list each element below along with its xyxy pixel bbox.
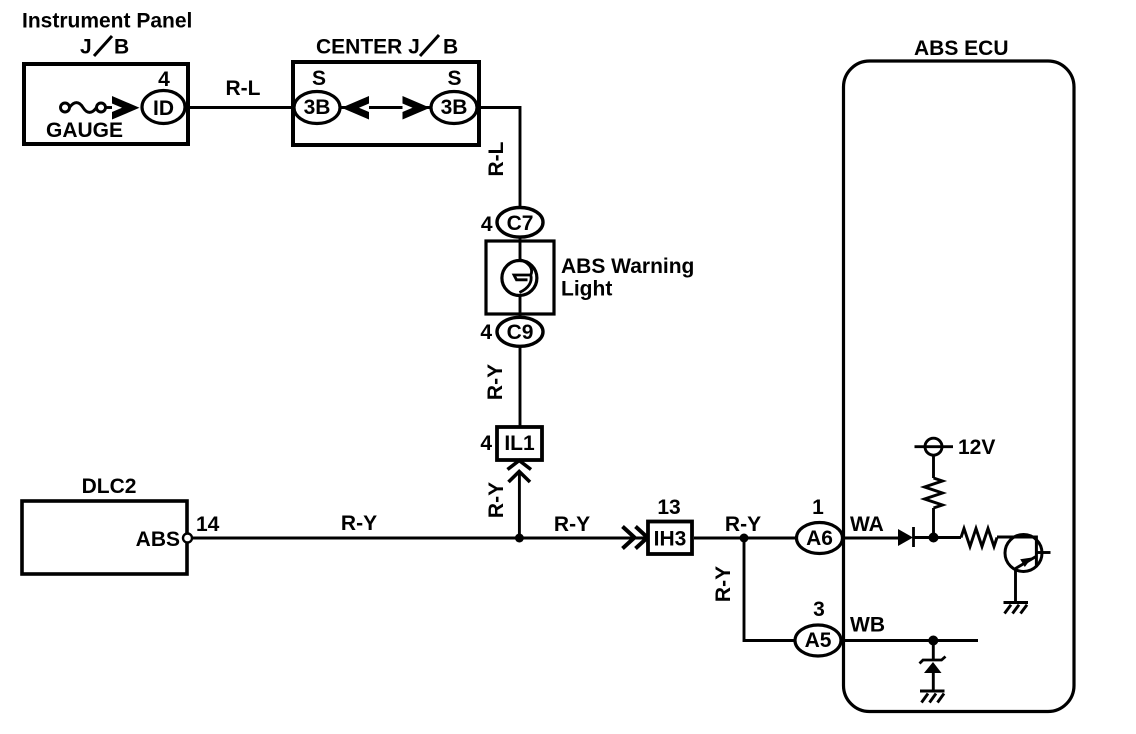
transistor Q1 bbox=[1005, 535, 1051, 572]
connector A5 bbox=[795, 625, 841, 656]
wire R-L (ID to CENTER J/B) bbox=[185, 106, 294, 109]
wire arrow to junction bbox=[518, 473, 521, 538]
box ABS Warning Light bbox=[486, 241, 554, 314]
junction dot WB node bbox=[928, 636, 938, 646]
svg-text:J: J bbox=[80, 36, 92, 59]
resistor R1 (vertical) bbox=[925, 478, 943, 508]
connector IL1 bbox=[497, 427, 542, 460]
svg-text:R-Y: R-Y bbox=[484, 364, 507, 400]
wire resistor to transistor bbox=[997, 536, 1036, 539]
svg-text:S: S bbox=[312, 67, 326, 90]
svg-text:4: 4 bbox=[481, 213, 493, 236]
wire resistor to node bbox=[932, 508, 935, 538]
svg-text:ABS: ABS bbox=[136, 528, 180, 551]
label CENTER J/B bbox=[316, 35, 458, 59]
svg-text:Instrument Panel: Instrument Panel bbox=[22, 10, 192, 33]
box ABS ECU bbox=[844, 61, 1075, 712]
arrow left toward 3B bbox=[342, 96, 370, 120]
svg-text:GAUGE: GAUGE bbox=[46, 119, 123, 142]
svg-text:IH3: IH3 bbox=[654, 528, 687, 551]
svg-text:12V: 12V bbox=[958, 436, 995, 459]
svg-text:WB: WB bbox=[850, 614, 885, 637]
wire branch down to A5 bbox=[744, 538, 796, 641]
svg-text:3: 3 bbox=[813, 598, 825, 621]
wire A5 into ECU (WB) bbox=[841, 639, 978, 642]
svg-text:ABS Warning: ABS Warning bbox=[561, 255, 694, 278]
svg-text:4: 4 bbox=[480, 432, 492, 455]
svg-text:B: B bbox=[114, 36, 129, 59]
wire C7 to light box bbox=[519, 237, 522, 262]
svg-text:R-Y: R-Y bbox=[485, 482, 508, 518]
wire between 3B connectors bbox=[340, 106, 431, 109]
wire 12V to resistor bbox=[932, 455, 935, 478]
connector 3B (left) bbox=[294, 92, 340, 124]
terminal circle DLC2 bbox=[183, 534, 192, 543]
box DLC2 bbox=[22, 501, 187, 574]
arrow double-chevron into IH3 bbox=[623, 527, 648, 549]
svg-text:1: 1 bbox=[812, 496, 824, 519]
wire light box to C9 bbox=[519, 294, 522, 319]
label Instrument Panel J/B bbox=[22, 10, 192, 59]
wire DLC2 to junction bbox=[192, 537, 519, 540]
svg-text:R-L: R-L bbox=[226, 77, 261, 100]
svg-text:13: 13 bbox=[657, 496, 680, 519]
zener diode ZD1 bbox=[920, 641, 946, 692]
arrow right toward 3B bbox=[403, 96, 431, 120]
bulb ABS Warning Light bbox=[502, 260, 537, 296]
svg-text:B: B bbox=[443, 36, 458, 59]
svg-text:ID: ID bbox=[153, 97, 174, 120]
svg-text:R-Y: R-Y bbox=[554, 513, 590, 536]
svg-text:WA: WA bbox=[850, 513, 884, 536]
power 12V bbox=[915, 438, 954, 455]
wire C9 to IL1 bbox=[519, 347, 522, 429]
svg-text:A6: A6 bbox=[806, 527, 833, 550]
svg-text:R-L: R-L bbox=[485, 141, 508, 176]
resistor R2 (horizontal) bbox=[961, 529, 997, 547]
label ABS Warning Light bbox=[561, 255, 694, 301]
box Instrument Panel J/B bbox=[24, 64, 188, 144]
svg-text:R-Y: R-Y bbox=[712, 566, 735, 602]
svg-text:4: 4 bbox=[480, 321, 492, 344]
wire from 3B right to corner bbox=[477, 108, 520, 208]
svg-text:ABS ECU: ABS ECU bbox=[914, 37, 1009, 60]
connector IH3 bbox=[648, 522, 692, 555]
connector A6 bbox=[797, 523, 843, 554]
fuse GAUGE bbox=[61, 103, 116, 113]
ground (transistor emitter) bbox=[1004, 603, 1029, 614]
connector C9 bbox=[497, 317, 543, 346]
connector ID bbox=[142, 91, 185, 124]
svg-text:IL1: IL1 bbox=[504, 432, 535, 455]
svg-text:DLC2: DLC2 bbox=[82, 475, 137, 498]
wire junction to IH3 bbox=[519, 537, 648, 540]
svg-text:3B: 3B bbox=[304, 96, 331, 119]
svg-text:4: 4 bbox=[158, 68, 170, 91]
svg-text:CENTER J: CENTER J bbox=[316, 36, 420, 59]
wire emitter down bbox=[1014, 569, 1017, 602]
ground (zener) bbox=[920, 691, 945, 703]
wire A6 into ECU bbox=[843, 537, 899, 540]
diode D1 bbox=[898, 527, 914, 547]
junction dot WA node bbox=[929, 533, 939, 543]
svg-text:3B: 3B bbox=[441, 96, 468, 119]
wire IH3 to A6 bbox=[694, 537, 797, 540]
svg-text:R-Y: R-Y bbox=[725, 513, 761, 536]
arrow into ID bbox=[112, 96, 140, 120]
svg-text:R-Y: R-Y bbox=[341, 512, 377, 535]
connector 3B (right) bbox=[431, 92, 477, 124]
junction dot bbox=[515, 534, 524, 543]
wire diode to node bbox=[914, 536, 962, 539]
arrow up below IL1 bbox=[508, 461, 532, 483]
connector C7 bbox=[497, 208, 543, 238]
svg-text:Light: Light bbox=[561, 278, 612, 301]
box CENTER J/B bbox=[293, 62, 479, 145]
junction dot (branch to A5) bbox=[740, 534, 749, 543]
svg-text:C9: C9 bbox=[507, 321, 534, 344]
svg-text:14: 14 bbox=[196, 513, 220, 536]
svg-text:S: S bbox=[447, 67, 461, 90]
svg-text:C7: C7 bbox=[507, 212, 534, 235]
svg-text:A5: A5 bbox=[805, 629, 832, 652]
